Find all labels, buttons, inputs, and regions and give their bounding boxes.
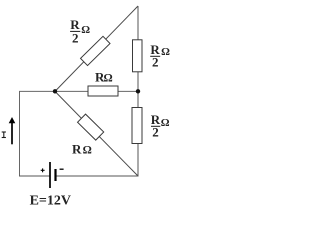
resistor R/2 upper-left diagonal body <box>81 36 110 65</box>
wire lower diagonal (node A to bottom-right corner) <box>55 91 138 176</box>
label - polarity <box>60 168 64 170</box>
svg-text:Ω: Ω <box>81 24 90 36</box>
wire right vertical branch <box>137 6 139 176</box>
wire left vertical branch <box>19 91 21 176</box>
label I current <box>2 132 6 138</box>
current arrow I head <box>9 117 16 123</box>
svg-text:Ω: Ω <box>161 117 170 129</box>
svg-text:2: 2 <box>72 31 79 46</box>
node B junction dot <box>136 89 140 93</box>
wire battery left lead <box>19 175 50 177</box>
svg-text:Ω: Ω <box>103 73 112 85</box>
wire bottom horizontal <box>56 175 139 177</box>
label + polarity <box>41 168 45 172</box>
node A junction dot <box>53 89 57 93</box>
wire upper diagonal (node A to apex) <box>55 6 138 91</box>
resistor R/2 lower-right body <box>132 108 142 144</box>
current arrow I shaft <box>11 123 13 144</box>
label R/2 ohm upper-left: fraction bar <box>70 30 80 32</box>
svg-text:2: 2 <box>152 124 159 139</box>
svg-text:Ω: Ω <box>83 145 92 157</box>
svg-text:E=12V: E=12V <box>30 194 71 209</box>
battery E long positive plate <box>49 162 51 188</box>
wire middle horizontal branch <box>55 90 138 92</box>
resistor R lower diagonal body <box>78 114 104 140</box>
svg-text:R: R <box>72 142 82 157</box>
svg-text:2: 2 <box>152 55 159 70</box>
svg-text:Ω: Ω <box>161 46 170 58</box>
label R/2 ohm lower-right: fraction bar <box>151 125 160 127</box>
resistor R middle body <box>88 86 118 96</box>
wire top-left horizontal to node A <box>19 90 55 92</box>
label R/2 ohm upper-right: fraction bar <box>150 55 160 57</box>
resistor R/2 upper-right body <box>133 40 143 72</box>
battery E short negative plate <box>54 169 56 181</box>
